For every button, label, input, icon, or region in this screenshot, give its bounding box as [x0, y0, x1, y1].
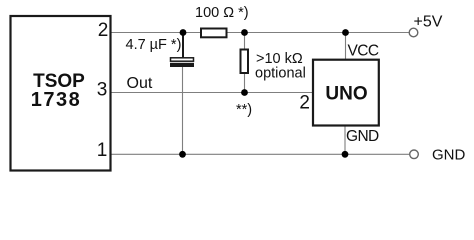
- svg-text:UNO: UNO: [325, 84, 367, 105]
- capacitor C1 4.7uF: [170, 33, 194, 68]
- junction node on top wire at capacitor: [180, 29, 187, 36]
- junction node on bottom wire at capacitor: [179, 151, 186, 158]
- junction node on Out wire at R2: [241, 89, 248, 96]
- svg-text:VCC: VCC: [348, 43, 379, 60]
- svg-text:Out: Out: [127, 75, 153, 92]
- wire bottom pin1 to GND terminal: [111, 153, 409, 155]
- terminal +5V: [409, 28, 418, 37]
- svg-text:4.7 µF *): 4.7 µF *): [126, 37, 182, 53]
- wire R2 bottom lead: [244, 73, 246, 93]
- junction node on top wire at VCC: [342, 29, 349, 36]
- svg-text:**): **): [236, 102, 252, 118]
- svg-text:optional: optional: [255, 65, 306, 81]
- svg-text:1: 1: [97, 140, 108, 161]
- svg-text:3: 3: [97, 79, 108, 100]
- junction node on top wire at R2: [241, 29, 248, 36]
- wire VCC branch: [345, 33, 347, 61]
- svg-text:1738: 1738: [31, 89, 82, 111]
- wire top segment R1 to +5V terminal: [227, 32, 409, 34]
- IC box TSOP1738: [11, 16, 111, 171]
- svg-text:+5V: +5V: [414, 14, 443, 31]
- resistor R1 100 ohm body: [201, 29, 227, 38]
- junction node on bottom wire at GND branch: [342, 151, 349, 158]
- wire top segment pin2 to R1: [111, 32, 201, 34]
- svg-text:GND: GND: [432, 147, 466, 164]
- svg-text:2: 2: [98, 20, 109, 41]
- wire GND branch: [344, 126, 346, 154]
- svg-text:100 Ω *): 100 Ω *): [195, 5, 249, 21]
- wire R2 top lead: [244, 33, 246, 51]
- terminal GND: [410, 150, 419, 159]
- IC box UNO: [313, 60, 379, 126]
- svg-text:GND: GND: [346, 128, 379, 145]
- resistor R2 >10k body: [241, 50, 249, 74]
- wire capacitor branch below C1: [182, 66, 184, 154]
- svg-text:2: 2: [299, 93, 310, 114]
- wire Out pin3 to UNO pin2: [111, 92, 313, 94]
